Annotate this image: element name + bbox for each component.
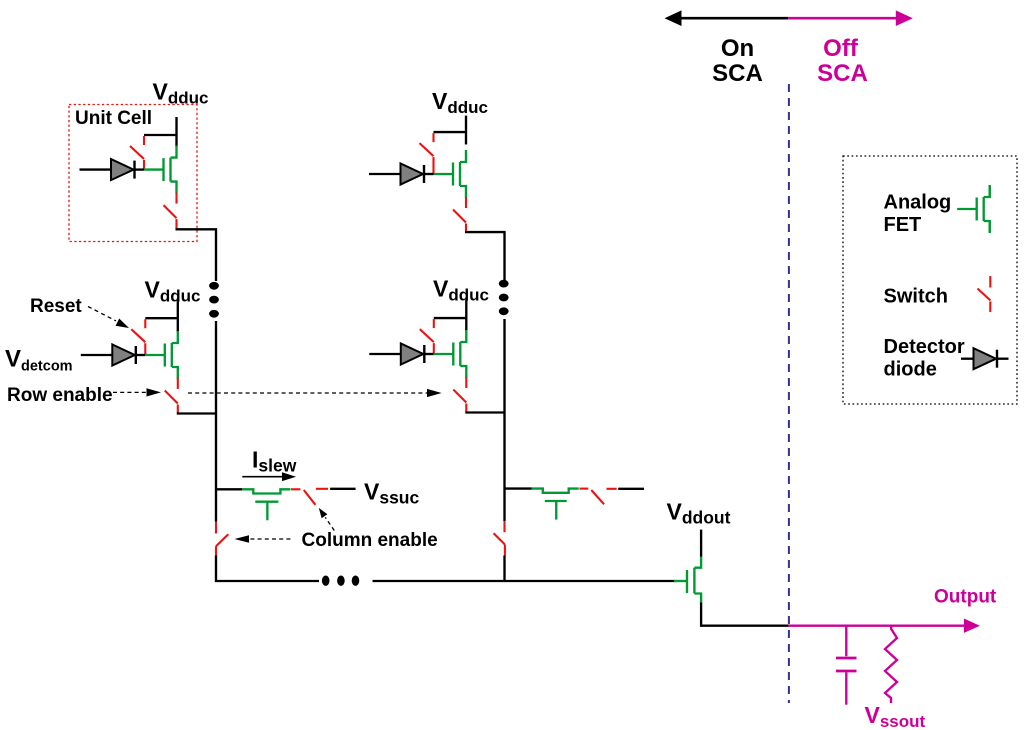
svg-text:Reset: Reset [30, 296, 82, 317]
svg-text:Output: Output [934, 587, 997, 608]
svg-text:Off: Off [823, 35, 859, 62]
svg-text:Unit Cell: Unit Cell [75, 108, 152, 129]
svg-text:Detector: Detector [884, 336, 965, 358]
svg-text:Row enable: Row enable [7, 385, 113, 406]
svg-text:FET: FET [884, 214, 922, 236]
svg-text:Switch: Switch [884, 286, 948, 308]
svg-text:SCA: SCA [712, 60, 763, 87]
svg-text:SCA: SCA [817, 60, 868, 87]
svg-text:diode: diode [884, 359, 937, 381]
svg-text:Analog: Analog [884, 192, 952, 214]
svg-text:Column enable: Column enable [302, 530, 438, 551]
svg-text:On: On [721, 35, 754, 62]
